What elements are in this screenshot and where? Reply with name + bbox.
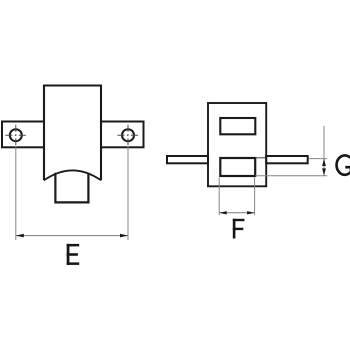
left view: bottom protrusion (plunger) — [55, 173, 88, 203]
right hole: vertical centerline — [127, 125, 129, 147]
dimension E: dimension line — [16, 235, 128, 237]
dimension E: right arrowhead — [120, 234, 128, 238]
dimension G: upper arrowhead — [322, 159, 326, 166]
right hole: horizontal centerline — [118, 134, 139, 136]
right view: upper window — [220, 118, 255, 134]
left hole: vertical centerline — [15, 125, 17, 147]
left hole: horizontal centerline — [5, 134, 26, 136]
left view: right mounting hole — [122, 129, 134, 141]
dimension G: bottom extension line — [255, 175, 327, 177]
dimension F: right arrowhead — [247, 211, 255, 214]
dimension E: right extension line — [127, 147, 129, 241]
left view: bottom arc of body — [44, 170, 101, 180]
right view: lower window — [220, 158, 255, 176]
dimension E: left arrowhead — [16, 234, 24, 238]
left view: right mounting flange — [101, 122, 144, 148]
dimension G: vertical dimension line — [323, 126, 325, 176]
left view: left mounting hole — [10, 129, 22, 141]
right view: contact plate line inside body — [255, 157, 266, 159]
dimension G: top extension line — [309, 158, 327, 160]
dimension E: left extension line — [15, 147, 17, 241]
dimension F: left arrowhead — [219, 211, 227, 214]
dimension F: right extension line — [254, 178, 256, 216]
right view: switch body — [208, 103, 266, 186]
left view: left mounting flange — [2, 122, 44, 148]
label F — [233, 219, 245, 239]
label G — [337, 155, 350, 174]
label E — [67, 244, 80, 265]
right view: left terminal bar — [167, 156, 208, 163]
dimension F: dimension line — [219, 212, 254, 214]
dimension G: lower arrowhead — [322, 168, 326, 175]
left view: solenoid main body — [44, 86, 101, 181]
right view: right terminal bar — [266, 156, 308, 163]
dimension F: left extension line — [218, 178, 220, 216]
